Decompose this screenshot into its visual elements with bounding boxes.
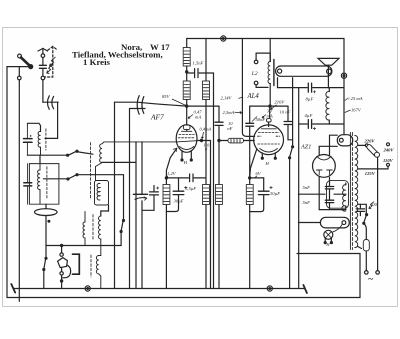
leader 0.47mA xyxy=(188,115,193,119)
speaker cone xyxy=(318,58,339,73)
capacitor 50nF tone xyxy=(246,106,254,178)
resistor R3 xyxy=(203,39,210,185)
resistor bottom mid xyxy=(203,185,210,205)
svg-text:AL4: AL4 xyxy=(247,93,260,100)
variable cap AGC xyxy=(133,142,147,289)
switch wave band 2 xyxy=(67,174,124,180)
svg-text:85V: 85V xyxy=(162,94,171,99)
variometer arcs grid xyxy=(137,96,144,115)
capacitor antenna series xyxy=(39,58,46,80)
svg-text:30µF: 30µF xyxy=(270,191,280,196)
heater pins AL4 xyxy=(261,153,276,159)
wire primary bottom xyxy=(358,247,362,249)
core output transformer xyxy=(273,60,275,86)
tube AL4 xyxy=(254,122,284,154)
svg-text:10 nF: 10 nF xyxy=(280,110,291,115)
resistor cathode AF7 xyxy=(163,178,170,289)
vertical wire left C xyxy=(135,142,137,289)
screen feed drop xyxy=(242,39,254,137)
chassis tick left xyxy=(11,284,15,293)
svg-text:167V: 167V xyxy=(351,108,362,113)
coil lower in box xyxy=(95,181,109,206)
leader 85V xyxy=(172,99,186,106)
chassis bus bottom xyxy=(14,288,305,290)
svg-text:5nF: 5nF xyxy=(303,185,311,190)
wire voice coil to field coil xyxy=(327,65,330,91)
capacitor 1.5uF xyxy=(190,174,193,182)
svg-text:AF7: AF7 xyxy=(150,113,164,122)
anode node line AL4 xyxy=(250,105,288,107)
ground return line xyxy=(7,254,360,298)
switch wave band 1 xyxy=(67,150,93,156)
wire antenna to left rail xyxy=(7,67,31,298)
grid cap clip AL4 xyxy=(267,119,272,122)
cathode network AL4 xyxy=(250,177,264,179)
svg-text:H: H xyxy=(325,242,330,247)
dashed earth branch xyxy=(45,46,58,77)
wire selector to mains xyxy=(377,157,379,270)
tap 110V xyxy=(358,163,390,169)
wire R1 to node xyxy=(186,66,188,81)
tuning capacitor rotor xyxy=(35,204,58,245)
coil tank 1 xyxy=(38,131,40,155)
pickup cable hook xyxy=(63,265,71,278)
wire winding to switch xyxy=(358,204,366,213)
resistor grid stopper AL4 xyxy=(228,138,244,143)
svg-text:8µF: 8µF xyxy=(306,97,314,102)
arcs corner upper xyxy=(115,101,138,103)
wire resistor to bus xyxy=(218,205,220,289)
grid line long xyxy=(104,141,197,142)
capacitor 8uF xyxy=(308,83,315,93)
wire arcs to grid junction xyxy=(137,102,219,106)
coil tank 2 xyxy=(38,164,40,205)
svg-text:216V: 216V xyxy=(275,100,286,105)
fuse xyxy=(363,240,369,271)
resistor R1 anode load xyxy=(183,48,190,67)
capacitor 10nF AF7 xyxy=(215,122,223,140)
capacitor 1.5nF coupling xyxy=(187,69,214,78)
leader 1.2V xyxy=(167,176,168,178)
heater line xyxy=(298,222,320,224)
wire antenna tap drop xyxy=(45,102,58,138)
svg-text:30µF: 30µF xyxy=(174,199,184,204)
core dashed tank 1 xyxy=(45,129,47,150)
wire box to lower pair xyxy=(101,205,109,216)
svg-text:L2: L2 xyxy=(251,71,258,77)
svg-text:5nF: 5nF xyxy=(303,200,311,205)
capacitor 5nF upper xyxy=(325,181,333,200)
switch pickup xyxy=(120,175,124,246)
wire antenna down xyxy=(42,80,44,102)
leader 2.5mA xyxy=(235,111,242,113)
wire AGC bottoms xyxy=(142,209,154,211)
svg-text:~: ~ xyxy=(368,274,373,284)
svg-text:H: H xyxy=(183,160,188,165)
AZ1 filament wires up xyxy=(319,135,337,155)
vertical wire left B xyxy=(129,109,131,289)
core dashed tank 2 xyxy=(46,167,48,200)
resistor cathode AL4 xyxy=(246,178,253,289)
antenna symbol xyxy=(38,48,48,57)
tank 1 bottom line xyxy=(27,154,66,156)
capacitor 30uF cathode xyxy=(166,178,187,212)
leader 216V xyxy=(271,105,277,110)
heater pins AF7 xyxy=(181,151,192,161)
junction cathode AL4 xyxy=(249,177,251,179)
HT cap block xyxy=(327,181,349,209)
junction grid AL4 xyxy=(218,139,220,141)
bracket TA xyxy=(73,254,80,274)
HT winding bottom line xyxy=(319,183,346,210)
chassis tick right xyxy=(303,285,307,293)
terminals L2 xyxy=(254,53,270,87)
voltage selector plug xyxy=(366,144,380,158)
lightning arrester arrows xyxy=(47,57,55,73)
cathode line AL4 xyxy=(250,150,257,178)
wire R2 to grid junction xyxy=(186,100,188,125)
rectifier filament winding xyxy=(337,135,352,146)
svg-text:≈ 25 mA: ≈ 25 mA xyxy=(347,96,363,101)
pickup head xyxy=(58,258,68,268)
capacitor 5nF lower xyxy=(325,200,333,209)
phono line xyxy=(46,245,121,247)
cathode network line xyxy=(166,177,206,179)
svg-text:4µF: 4µF xyxy=(305,113,313,118)
mains terminals xyxy=(365,271,380,275)
capacitor 30uF AL4 xyxy=(250,178,273,212)
wire resistor mid to bus xyxy=(205,205,207,289)
anode line to corner xyxy=(197,139,211,288)
core dashed phono coil xyxy=(90,255,92,277)
wire corner cap chain xyxy=(218,106,220,121)
node top bus xyxy=(221,36,226,41)
node bus left xyxy=(85,286,90,291)
pickup terminal bottom xyxy=(60,268,63,289)
mains primary winding xyxy=(355,136,358,248)
antenna terminal xyxy=(18,67,22,302)
wire to grid resistor xyxy=(219,140,228,142)
svg-text:AZ1: AZ1 xyxy=(300,144,311,151)
title text xyxy=(72,42,170,67)
field coil xyxy=(326,91,329,120)
leader 50nF xyxy=(252,117,257,122)
node B+ right xyxy=(341,73,346,78)
coil pair left winding xyxy=(83,212,85,246)
B+ node line xyxy=(278,78,345,88)
coupling coil upper xyxy=(96,142,105,181)
svg-text:100: 100 xyxy=(370,202,378,207)
mains transformer core xyxy=(350,133,352,250)
output transformer primary xyxy=(268,62,270,84)
grid cap clip AF7 xyxy=(183,125,190,130)
coil phono coupling xyxy=(96,256,100,289)
junction dot R1 xyxy=(186,71,188,73)
wire cap branch down xyxy=(213,73,215,289)
svg-text:mA: mA xyxy=(267,114,273,119)
capacitor 10nF AL4 anode xyxy=(284,106,293,140)
svg-text:nF: nF xyxy=(227,126,232,131)
leader 30mA xyxy=(262,115,266,119)
switch mains xyxy=(363,214,368,240)
secondary racetrack to speaker xyxy=(276,66,332,76)
B+ right drop xyxy=(343,39,345,135)
coil pair right winding xyxy=(99,216,101,256)
AZ1 anode wires down xyxy=(319,177,329,210)
capacitor AGC electrolytic xyxy=(150,186,159,211)
cathode arrow AF7 xyxy=(166,148,176,178)
leader 0.4mA xyxy=(201,132,204,139)
svg-text:125V: 125V xyxy=(365,171,376,176)
tank 1 top xyxy=(27,123,40,131)
vertical wire left A xyxy=(114,102,116,288)
heater winding xyxy=(320,217,349,228)
jagged arrow mains cap xyxy=(369,202,374,209)
pilot lamp H xyxy=(324,224,342,243)
HT winding xyxy=(342,185,346,211)
core dashed coupling xyxy=(90,143,92,199)
node bus right xyxy=(267,286,272,291)
leader 25mA xyxy=(345,99,348,101)
junction dot grid xyxy=(186,105,188,107)
tap 240V xyxy=(387,143,390,146)
wire field coil to B+ xyxy=(328,120,330,124)
leader 167V xyxy=(345,110,351,113)
switch phono left xyxy=(43,246,47,289)
wire tank1 to tank2 xyxy=(39,155,41,163)
tube AZ1 xyxy=(313,155,336,178)
wire resistor to tube AL4 xyxy=(244,140,255,142)
svg-text:220V: 220V xyxy=(364,139,376,144)
leader arrows xyxy=(167,97,351,177)
B+ choke output line xyxy=(299,123,344,125)
svg-text:240V: 240V xyxy=(383,147,395,152)
arcs corner lower xyxy=(130,108,146,110)
leader 2.14V xyxy=(239,97,243,98)
core dashed pair xyxy=(92,215,94,241)
svg-text:1 Kreis: 1 Kreis xyxy=(83,57,111,67)
resistor bottom grid AL4 xyxy=(216,185,223,205)
svg-text:mA: mA xyxy=(195,115,201,120)
variometer arcs antenna xyxy=(43,96,58,110)
capacitor 4uF xyxy=(308,120,315,130)
capacitor mains xyxy=(356,204,364,215)
wire racetrack down xyxy=(292,78,294,146)
wire junction down xyxy=(218,141,220,185)
wire coil tap to right xyxy=(102,161,136,163)
center tap ground line xyxy=(298,88,300,289)
leader 6V xyxy=(255,176,257,178)
shield box tank 2 xyxy=(29,164,59,205)
svg-text:H: H xyxy=(265,161,270,166)
tap line tank 2 xyxy=(44,178,67,180)
center tap line xyxy=(298,193,346,195)
capacitor tank 1 xyxy=(24,123,33,155)
capacitor tank 2 xyxy=(24,164,32,205)
pickup terminal top xyxy=(60,244,63,256)
wire transformer drop xyxy=(269,39,271,62)
B+ top bus xyxy=(187,39,344,48)
tap 220V xyxy=(358,144,368,147)
tube AF7 xyxy=(176,125,197,153)
wire transformer to anode node xyxy=(269,84,272,118)
switch tone xyxy=(289,146,294,289)
antenna plug xyxy=(18,54,33,69)
resistor R2 xyxy=(183,81,190,100)
svg-text:110V: 110V xyxy=(383,158,394,163)
